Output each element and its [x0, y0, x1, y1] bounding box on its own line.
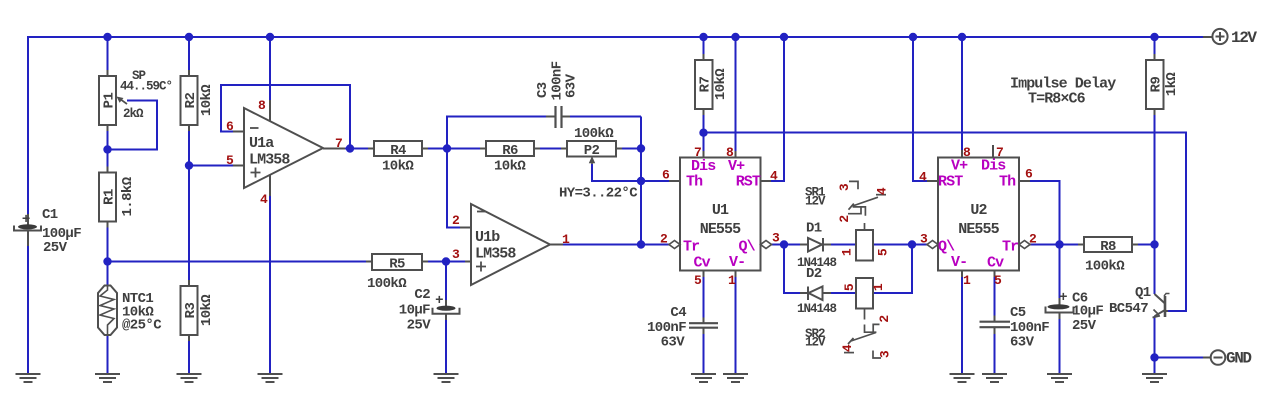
svg-text:10kΩ: 10kΩ	[199, 294, 215, 326]
svg-text:RST: RST	[736, 174, 761, 191]
svg-text:BC547: BC547	[1109, 301, 1148, 317]
svg-text:LM358: LM358	[249, 152, 290, 169]
svg-text:+: +	[435, 293, 443, 309]
svg-text:1: 1	[562, 232, 570, 247]
svg-text:3: 3	[452, 247, 460, 262]
svg-text:8: 8	[258, 98, 266, 113]
svg-text:R6: R6	[502, 143, 518, 159]
svg-text:8: 8	[963, 145, 971, 160]
svg-text:5: 5	[876, 248, 891, 256]
svg-text:1: 1	[963, 273, 971, 288]
svg-text:25V: 25V	[1072, 318, 1097, 334]
svg-text:5: 5	[842, 283, 857, 291]
svg-text:V+: V+	[728, 158, 745, 175]
svg-text:V-: V-	[729, 254, 745, 271]
svg-text:R8: R8	[1100, 239, 1116, 255]
svg-text:Q1: Q1	[1135, 285, 1151, 301]
svg-text:25V: 25V	[407, 318, 432, 334]
svg-text:6: 6	[226, 119, 234, 134]
svg-text:44..59C°: 44..59C°	[120, 80, 172, 94]
svg-text:R3: R3	[183, 303, 199, 319]
svg-text:GND: GND	[1226, 350, 1251, 368]
svg-text:D2: D2	[806, 266, 822, 282]
svg-text:1: 1	[728, 273, 736, 288]
svg-text:Tr: Tr	[683, 239, 699, 256]
svg-text:+: +	[22, 212, 30, 228]
svg-text:1.8kΩ: 1.8kΩ	[120, 176, 136, 216]
svg-text:U2: U2	[970, 202, 987, 219]
svg-text:R1: R1	[102, 189, 118, 205]
svg-text:10kΩ: 10kΩ	[382, 159, 414, 175]
svg-text:U1a: U1a	[249, 135, 274, 152]
svg-text:1kΩ: 1kΩ	[1164, 72, 1180, 97]
svg-text:1: 1	[840, 248, 855, 256]
svg-text:4: 4	[840, 344, 855, 352]
svg-text:Tr: Tr	[1002, 239, 1018, 256]
svg-text:D1: D1	[806, 221, 822, 237]
svg-text:10kΩ: 10kΩ	[713, 68, 729, 100]
svg-text:R2: R2	[183, 93, 199, 109]
svg-text:12V: 12V	[1231, 29, 1257, 47]
svg-text:1N4148: 1N4148	[797, 302, 837, 316]
svg-text:Dis: Dis	[691, 158, 716, 175]
svg-text:T=R8×C6: T=R8×C6	[1028, 91, 1086, 108]
svg-text:Q\: Q\	[739, 239, 756, 256]
svg-text:6: 6	[662, 168, 670, 183]
svg-text:1: 1	[871, 283, 886, 291]
svg-text:V-: V-	[951, 254, 967, 271]
svg-text:2: 2	[452, 213, 460, 228]
svg-text:C1: C1	[42, 207, 58, 223]
svg-text:2: 2	[1029, 232, 1037, 247]
svg-text:10µF: 10µF	[399, 303, 430, 319]
svg-text:2: 2	[837, 215, 852, 223]
svg-text:63V: 63V	[1010, 335, 1035, 351]
svg-text:100kΩ: 100kΩ	[574, 126, 614, 142]
svg-text:Dis: Dis	[981, 158, 1006, 175]
svg-text:7: 7	[996, 145, 1003, 160]
svg-text:12V: 12V	[805, 336, 826, 350]
svg-text:63V: 63V	[661, 335, 686, 351]
svg-text:Cv: Cv	[987, 255, 1004, 272]
svg-text:P1: P1	[102, 93, 118, 109]
svg-text:Q\: Q\	[938, 239, 955, 256]
svg-text:R9: R9	[1149, 77, 1165, 93]
svg-text:LM358: LM358	[475, 246, 516, 263]
svg-text:4: 4	[260, 192, 268, 207]
svg-text:NE555: NE555	[958, 221, 999, 238]
svg-text:3: 3	[772, 231, 780, 246]
svg-text:V+: V+	[951, 158, 968, 175]
svg-text:4: 4	[919, 170, 927, 185]
svg-text:3: 3	[920, 232, 928, 247]
svg-text:6: 6	[1025, 167, 1033, 182]
svg-text:@25°C: @25°C	[122, 318, 162, 334]
svg-text:NE555: NE555	[700, 221, 741, 238]
svg-text:3: 3	[878, 350, 893, 358]
svg-text:4: 4	[770, 169, 778, 184]
svg-text:100kΩ: 100kΩ	[367, 276, 407, 292]
svg-text:2: 2	[877, 315, 892, 323]
svg-text:U1: U1	[712, 202, 729, 219]
svg-text:R5: R5	[389, 257, 405, 273]
svg-text:25V: 25V	[43, 240, 68, 256]
svg-text:7: 7	[694, 145, 701, 160]
svg-text:5: 5	[994, 273, 1002, 288]
svg-text:+: +	[1059, 290, 1067, 306]
svg-text:7: 7	[335, 136, 342, 151]
svg-text:P2: P2	[584, 143, 600, 159]
svg-text:C5: C5	[1010, 305, 1026, 321]
svg-text:4: 4	[875, 187, 890, 195]
svg-text:63V: 63V	[564, 73, 580, 98]
svg-text:3: 3	[837, 183, 852, 191]
svg-text:10kΩ: 10kΩ	[494, 159, 526, 175]
svg-text:HY=3..22°C: HY=3..22°C	[559, 186, 638, 202]
svg-text:Th: Th	[686, 174, 703, 191]
svg-text:2: 2	[660, 232, 668, 247]
svg-text:100kΩ: 100kΩ	[1085, 259, 1125, 275]
svg-text:12V: 12V	[805, 195, 826, 209]
svg-text:2kΩ: 2kΩ	[123, 107, 144, 121]
svg-text:C2: C2	[414, 287, 430, 303]
svg-text:10kΩ: 10kΩ	[199, 84, 215, 116]
svg-text:Cv: Cv	[694, 255, 711, 272]
svg-text:5: 5	[694, 273, 702, 288]
svg-text:R7: R7	[698, 77, 714, 93]
svg-text:U1b: U1b	[475, 229, 500, 246]
svg-text:Th: Th	[999, 174, 1016, 191]
svg-text:8: 8	[726, 145, 734, 160]
svg-text:RST: RST	[938, 174, 963, 191]
svg-text:C4: C4	[670, 305, 686, 321]
svg-text:R4: R4	[390, 143, 406, 159]
svg-text:5: 5	[226, 153, 234, 168]
